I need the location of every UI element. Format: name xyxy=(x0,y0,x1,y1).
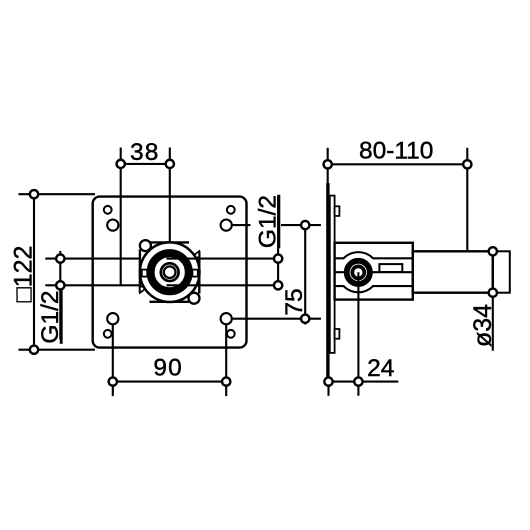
pipe end cap xyxy=(493,251,510,292)
dim 90 marker left xyxy=(109,377,117,385)
ear lug bottom-right xyxy=(189,293,200,304)
hole top-left small xyxy=(104,206,112,214)
hole bottom-left small xyxy=(104,330,112,338)
body mid line xyxy=(335,271,413,273)
svg-text:24: 24 xyxy=(367,355,394,382)
svg-text:□122: □122 xyxy=(9,246,37,303)
dim 38 witness line left xyxy=(120,148,122,286)
side boss annulus xyxy=(347,261,370,284)
wall plate front layer xyxy=(330,196,335,353)
dim o34 marker bottom xyxy=(489,289,497,297)
port tab left xyxy=(142,270,147,277)
dim 80-110 witness left top tail xyxy=(327,148,329,187)
left pipe top edge / G12 ext xyxy=(45,258,140,260)
dim G12 left marker bottom xyxy=(56,281,64,289)
dim 75 ext bottom from hole xyxy=(232,318,321,320)
step rect xyxy=(379,264,402,272)
pipe top line with arc bump xyxy=(335,252,413,258)
flange corner triangle top-right xyxy=(191,251,199,257)
dim 38 marker right xyxy=(166,160,174,168)
left pipe bottom edge / G12 ext xyxy=(45,284,140,286)
svg-text:G1/2: G1/2 xyxy=(255,195,282,248)
dim 122 ext top xyxy=(19,193,96,195)
flange left edge xyxy=(139,250,141,293)
wall plate tab bottom xyxy=(335,329,340,339)
dim G12 left marker top xyxy=(56,254,64,262)
port tab right xyxy=(192,270,197,277)
svg-text:75: 75 xyxy=(281,288,308,315)
flange corner triangle bottom-left xyxy=(140,287,148,293)
flange top edge xyxy=(143,241,189,243)
dim 80-110 marker left xyxy=(324,160,332,168)
front view: mounting plate xyxy=(93,197,247,348)
valve rosette outer circle xyxy=(140,242,200,302)
dim G12 right marker top xyxy=(274,254,282,262)
dim 90 witness left xyxy=(112,325,114,396)
valve body rect xyxy=(335,243,413,300)
dim 24 line xyxy=(329,381,399,383)
dim 90 line xyxy=(113,381,226,383)
dim 24 left tail xyxy=(327,382,329,396)
dim 122 ext bottom xyxy=(19,349,96,351)
dim G12 left line xyxy=(59,251,61,340)
svg-text:90: 90 xyxy=(153,355,183,382)
hole bottom-left large xyxy=(107,313,118,324)
dim 75 ext top from hole xyxy=(232,224,251,226)
svg-text:80-110: 80-110 xyxy=(359,138,433,165)
dim 80-110 marker right xyxy=(463,160,471,168)
pipe right rect xyxy=(413,251,493,292)
dim 75 marker bottom xyxy=(301,315,309,323)
valve inner annulus xyxy=(162,265,177,280)
pipe bottom line with arc bump xyxy=(335,286,413,292)
valve inner hairline xyxy=(162,265,177,280)
dim 122 marker bottom xyxy=(30,346,38,354)
right pipe lines over rosette xyxy=(167,258,200,260)
hole top-right small xyxy=(227,206,235,214)
flange right edge xyxy=(198,251,200,293)
wall line xyxy=(326,183,329,382)
dim 80-110 line xyxy=(328,163,468,165)
hole bottom-right large xyxy=(221,313,232,324)
ear lug top-left xyxy=(140,240,151,251)
side boss inner circle xyxy=(352,266,364,278)
right pipe top edge to G12 dim xyxy=(167,258,279,260)
dim 75 marker top xyxy=(301,221,309,229)
flange bottom edge xyxy=(150,301,192,303)
hole top-right large xyxy=(221,220,232,231)
hole top-left large xyxy=(107,220,118,231)
dim 122 line xyxy=(33,194,35,350)
dim 24 center witness xyxy=(357,272,359,396)
svg-text:ø34: ø34 xyxy=(469,304,497,347)
dim G12 right marker bottom xyxy=(274,281,282,289)
dim 75 line xyxy=(304,221,306,325)
dim 38 witness line right xyxy=(169,148,171,244)
right pipe bottom edge to G12 dim xyxy=(167,284,279,286)
dim 90 witness right xyxy=(225,325,227,396)
wall plate tab top xyxy=(335,206,340,216)
dim 80-110 witness right xyxy=(466,148,468,252)
dim G12 right line xyxy=(277,196,279,286)
svg-text:38: 38 xyxy=(130,139,160,166)
dim 24 marker left xyxy=(324,377,332,385)
valve thick ring xyxy=(151,253,189,291)
dim o34 line xyxy=(492,251,494,350)
dim 24 marker right xyxy=(354,377,362,385)
dim 122 marker top xyxy=(30,190,38,198)
dim 90 marker right xyxy=(222,377,230,385)
svg-text:G1/2: G1/2 xyxy=(37,290,64,343)
dim 38 marker left xyxy=(117,160,125,168)
dim 38 line xyxy=(121,163,170,165)
dim o34 marker top xyxy=(489,247,497,255)
hole bottom-right small xyxy=(227,330,235,338)
